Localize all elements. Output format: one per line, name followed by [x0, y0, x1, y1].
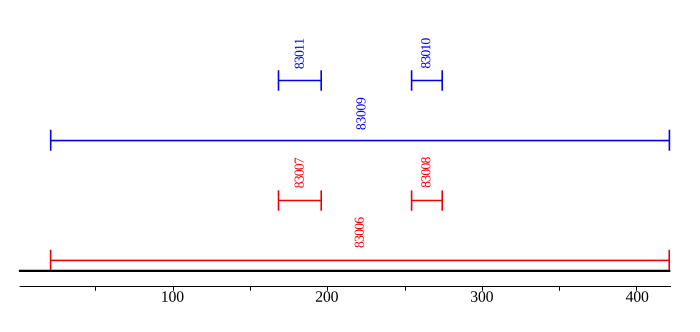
- label 83008: [421, 157, 430, 187]
- tick label 300: [471, 291, 493, 302]
- label 83011: [295, 39, 304, 69]
- label 83009: [356, 98, 365, 130]
- tick label 400: [626, 291, 648, 302]
- feature bar 83008: [412, 190, 443, 210]
- axis ticks: [96, 286, 637, 291]
- feature bar 83007: [279, 190, 322, 210]
- x axis line: [20, 286, 671, 288]
- label 83006: [355, 217, 364, 247]
- feature bar 83006: [51, 250, 670, 270]
- sequence line (thick black): [19, 270, 671, 272]
- feature bar 83011: [279, 70, 322, 91]
- label 83007: [295, 158, 304, 188]
- label 83010: [421, 38, 430, 68]
- feature bar 83009: [51, 130, 670, 151]
- tick label 200: [316, 291, 338, 302]
- feature bar 83010: [412, 70, 443, 91]
- tick label 100: [162, 291, 183, 302]
